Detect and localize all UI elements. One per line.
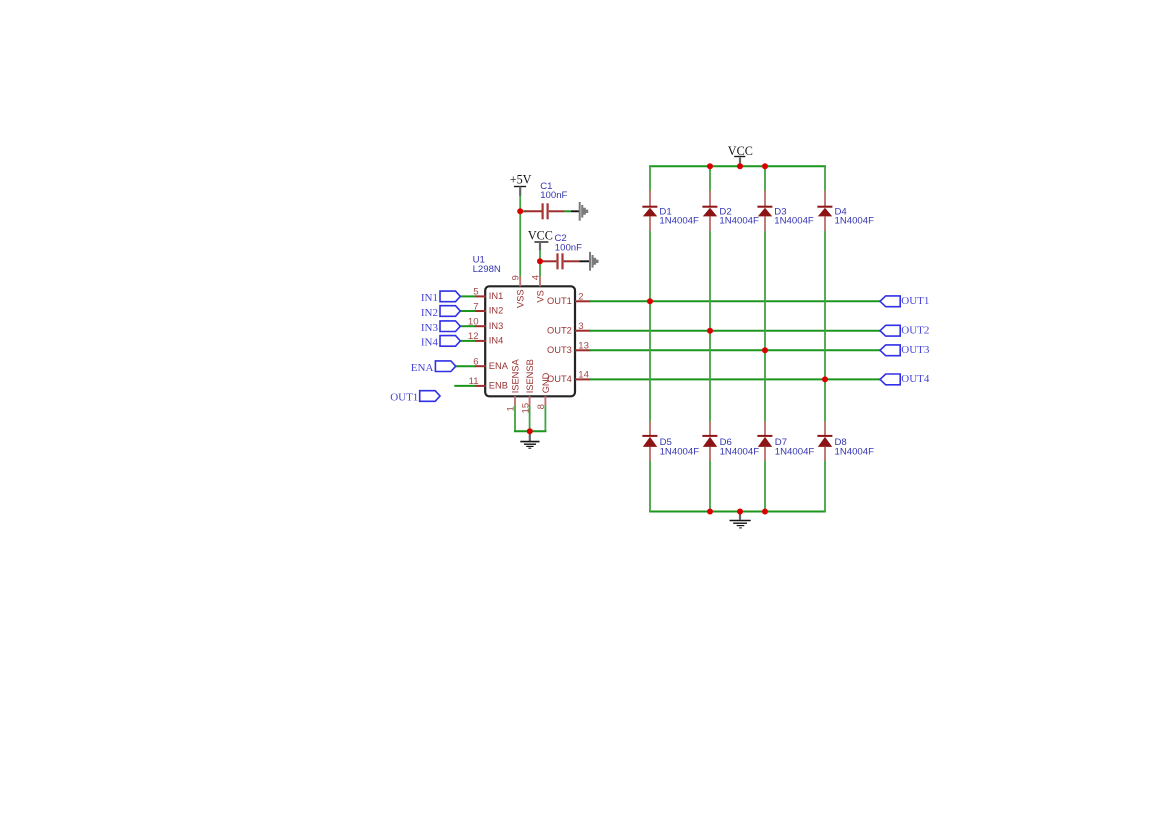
- power VCC (left): [528, 229, 553, 251]
- power VCC (top rail): [728, 144, 753, 166]
- wire column D1 top: [649, 165, 651, 191]
- port flag IN3: [440, 321, 460, 332]
- svg-text:ENA: ENA: [489, 361, 509, 371]
- svg-text:+5V: +5V: [510, 172, 532, 186]
- svg-text:100nF: 100nF: [540, 190, 567, 201]
- svg-text:L298N: L298N: [473, 264, 501, 275]
- junction D3/OUT3: [762, 347, 768, 353]
- wire IN3: [460, 325, 475, 327]
- ground GND2: [579, 252, 598, 271]
- pin 5 IN1 stub: [475, 295, 486, 297]
- svg-text:1N4004F: 1N4004F: [720, 447, 760, 458]
- junction bottom D7: [762, 509, 768, 515]
- wire IN1: [460, 295, 475, 297]
- junction +5V/C1: [517, 208, 523, 214]
- svg-text:GND: GND: [541, 372, 551, 393]
- diode D8: [817, 422, 832, 462]
- pin 13 OUT3 stub: [575, 349, 591, 351]
- wire column D3 top: [764, 165, 766, 191]
- wire pin8 down: [544, 406, 546, 432]
- diode D5: [642, 422, 657, 462]
- svg-text:OUT1: OUT1: [547, 296, 572, 306]
- svg-text:OUT1: OUT1: [390, 392, 418, 404]
- capacitor C2: [541, 253, 579, 269]
- pin 7 IN2 stub: [475, 310, 486, 312]
- junction rail D3: [762, 163, 768, 169]
- svg-text:2: 2: [578, 292, 583, 303]
- op-amp U1 body: [485, 286, 575, 396]
- diode D2: [702, 191, 717, 232]
- svg-text:IN4: IN4: [489, 336, 503, 346]
- svg-text:IN1: IN1: [489, 291, 503, 301]
- pin 2 OUT1 stub: [575, 300, 591, 302]
- wire column D4 top: [824, 165, 826, 191]
- port flag ENA: [435, 361, 455, 372]
- svg-text:ENA: ENA: [411, 362, 434, 374]
- svg-text:14: 14: [578, 370, 589, 381]
- ground GND4: [730, 512, 751, 528]
- pin 4 VS stub: [539, 277, 541, 287]
- svg-text:OUT3: OUT3: [547, 345, 572, 355]
- svg-text:1N4004F: 1N4004F: [719, 216, 759, 227]
- junction D1/OUT1: [647, 298, 653, 304]
- junction chip gnd: [527, 428, 533, 434]
- svg-text:IN2: IN2: [489, 306, 503, 316]
- pin 8 GND stub: [544, 396, 546, 406]
- port flag IN2: [440, 306, 460, 317]
- wire ENB: [454, 385, 475, 387]
- wire column D4 middle: [824, 231, 826, 422]
- wire gnd bus: [514, 430, 546, 432]
- diode D3: [757, 191, 772, 232]
- svg-text:13: 13: [578, 341, 589, 352]
- pin 11 ENB stub: [475, 385, 486, 387]
- wire column D7 bottom: [764, 461, 766, 513]
- wire column D3 middle: [764, 231, 766, 422]
- svg-text:4: 4: [531, 274, 542, 280]
- wire IN2: [460, 310, 475, 312]
- wire pin1 down: [514, 406, 516, 432]
- wire pin15 down: [529, 406, 531, 432]
- pin 6 ENA stub: [475, 365, 486, 367]
- svg-text:IN3: IN3: [489, 321, 503, 331]
- svg-text:OUT3: OUT3: [901, 344, 930, 356]
- svg-text:1N4004F: 1N4004F: [835, 447, 875, 458]
- wire column D8 bottom: [824, 461, 826, 513]
- svg-text:VCC: VCC: [528, 229, 553, 243]
- junction bottom D6: [707, 509, 713, 515]
- pin 10 IN3 stub: [475, 325, 486, 327]
- wire bottom rail: [649, 511, 826, 513]
- ground GND3: [520, 431, 539, 448]
- port flag OUT3: [880, 345, 900, 356]
- svg-text:1N4004F: 1N4004F: [775, 447, 815, 458]
- diode D7: [757, 422, 772, 462]
- port flag OUT2: [880, 325, 900, 336]
- svg-text:3: 3: [578, 321, 583, 332]
- wire OUT4: [590, 378, 880, 380]
- diode D6: [702, 422, 717, 462]
- svg-text:VS: VS: [535, 290, 545, 302]
- svg-text:OUT2: OUT2: [901, 324, 929, 336]
- wire OUT1: [590, 300, 880, 302]
- power +5V: [510, 172, 532, 196]
- svg-text:ISENSA: ISENSA: [511, 358, 521, 393]
- port flag IN4: [440, 336, 460, 347]
- svg-text:OUT1: OUT1: [901, 295, 929, 307]
- wire OUT3: [590, 349, 880, 351]
- svg-text:IN3: IN3: [421, 322, 439, 334]
- svg-text:OUT4: OUT4: [901, 373, 930, 385]
- wire junction to C1: [520, 210, 526, 212]
- capacitor C1: [525, 203, 565, 219]
- junction D4/OUT4: [822, 376, 828, 382]
- svg-text:1N4004F: 1N4004F: [660, 447, 700, 458]
- junction bottom gnd: [737, 509, 743, 515]
- svg-text:1N4004F: 1N4004F: [659, 216, 699, 227]
- wire +5V vertical to pin 9: [519, 196, 521, 277]
- junction VCC/C2: [537, 258, 543, 264]
- junction rail VCC: [737, 163, 743, 169]
- junction D2/OUT2: [707, 328, 713, 334]
- port flag OUT1: [880, 296, 900, 307]
- diode D4: [817, 191, 832, 232]
- svg-text:1N4004F: 1N4004F: [835, 216, 875, 227]
- wire column D2 middle: [709, 231, 711, 422]
- wire VCC top rail: [649, 165, 826, 167]
- port flag OUT4: [880, 374, 900, 385]
- wire OUT2: [590, 330, 880, 332]
- junction rail D2: [707, 163, 713, 169]
- pin 15 ISENSB stub: [529, 396, 531, 406]
- svg-text:IN4: IN4: [421, 337, 439, 349]
- wire C1 to GND1: [564, 210, 570, 212]
- port flag OUT1 floating: [420, 391, 440, 402]
- svg-text:IN1: IN1: [421, 292, 438, 304]
- ground GND1: [571, 202, 588, 221]
- wire VCC vertical to pin 4: [539, 251, 541, 277]
- wire ENA: [456, 365, 476, 367]
- svg-text:9: 9: [511, 275, 522, 280]
- wire column D6 bottom: [709, 461, 711, 513]
- pin 14 OUT4 stub: [575, 378, 591, 380]
- svg-text:OUT2: OUT2: [547, 325, 572, 335]
- pin 1 ISENSA stub: [514, 396, 516, 406]
- svg-text:IN2: IN2: [421, 307, 438, 319]
- svg-text:VSS: VSS: [516, 289, 526, 308]
- pin 3 OUT2 stub: [575, 330, 591, 332]
- svg-text:ISENSB: ISENSB: [525, 359, 535, 393]
- port flag IN1: [440, 291, 460, 302]
- wire column D2 top: [709, 165, 711, 191]
- diode D1: [642, 191, 657, 232]
- wire column D1 middle: [649, 231, 651, 422]
- wire column D5 bottom: [649, 461, 651, 513]
- svg-text:1N4004F: 1N4004F: [774, 216, 814, 227]
- pin 9 VSS stub: [519, 277, 521, 287]
- svg-text:ENB: ENB: [489, 381, 508, 391]
- wire IN4: [460, 340, 475, 342]
- svg-text:100nF: 100nF: [555, 243, 582, 254]
- pin 12 IN4 stub: [475, 340, 486, 342]
